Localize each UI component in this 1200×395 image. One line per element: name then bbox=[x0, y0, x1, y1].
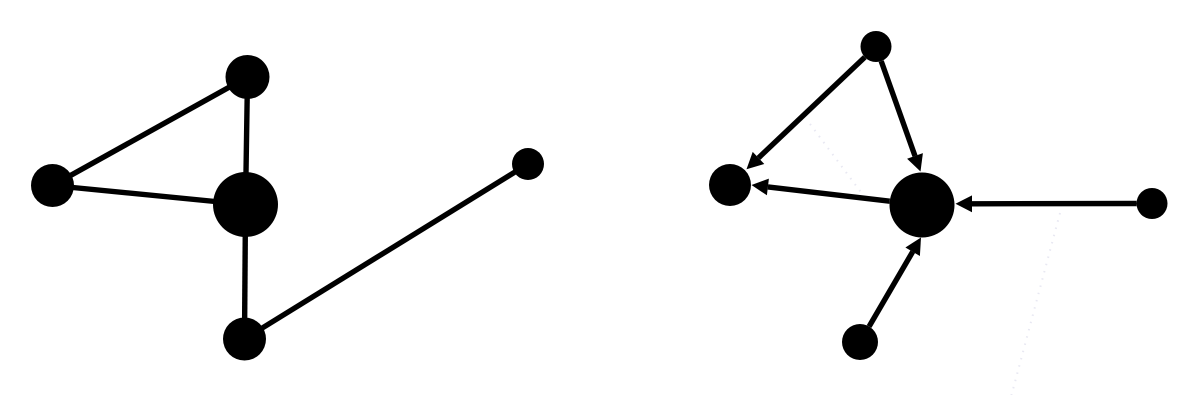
node E (left graph right) bbox=[512, 148, 544, 180]
wire edge C-D (left graph) bbox=[245, 205, 246, 340]
node B (left graph left) bbox=[31, 164, 74, 207]
node C (left graph center hub) bbox=[213, 172, 278, 237]
directed edge I->H with arrowhead bbox=[972, 201, 1137, 207]
faint dotted watermark line 2 bbox=[1011, 213, 1060, 395]
node F (right graph top) bbox=[861, 31, 892, 62]
directed edge F->H with arrowhead bbox=[881, 61, 915, 156]
directed edge J->H with arrowhead bbox=[869, 252, 913, 327]
node A (left graph top) bbox=[226, 55, 270, 99]
node G (right graph left) bbox=[709, 164, 751, 206]
node H (right graph center hub) bbox=[890, 173, 955, 238]
node J (right graph bottom) bbox=[842, 324, 878, 360]
wire edge D-E (left graph) bbox=[245, 164, 529, 339]
faint dotted watermark line 1 bbox=[810, 124, 866, 199]
directed edge H->G with arrowhead bbox=[768, 187, 890, 201]
directed edge F->G with arrowhead bbox=[759, 57, 865, 158]
node I (right graph right) bbox=[1137, 188, 1168, 219]
node D (left graph bottom) bbox=[223, 318, 266, 361]
wire edge B-A (left graph) bbox=[53, 77, 248, 186]
wire edge A-C (left graph) bbox=[246, 77, 248, 205]
wire edge B-C (left graph) bbox=[53, 186, 246, 205]
